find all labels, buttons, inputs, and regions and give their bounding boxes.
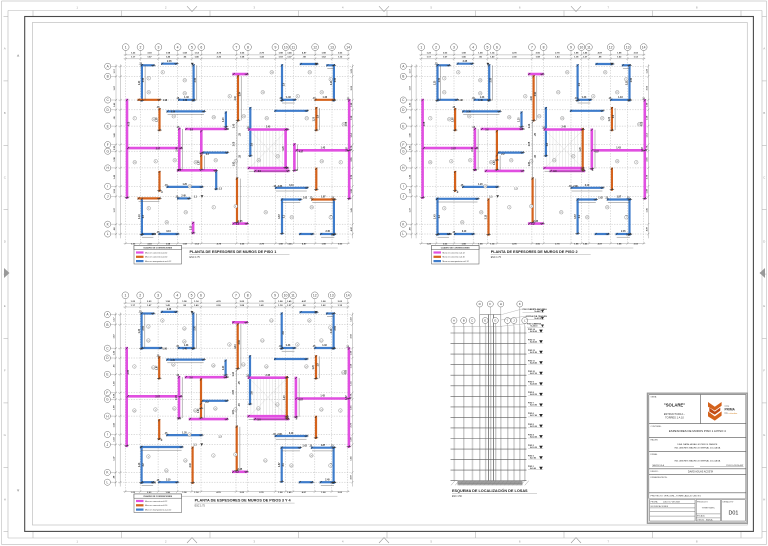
svg-text:4.05: 4.05 <box>345 369 348 374</box>
magenta v right-mid <box>590 130 593 169</box>
svg-text:MATRICULA: MATRICULA <box>653 464 665 467</box>
blue h box top right <box>312 447 334 449</box>
svg-text:9: 9 <box>148 456 149 458</box>
svg-text:2.50: 2.50 <box>195 77 197 82</box>
svg-text:3.10: 3.10 <box>531 95 533 100</box>
svg-text:2.87: 2.87 <box>155 397 160 399</box>
magenta h <box>486 170 523 173</box>
svg-text:colombia: colombia <box>729 413 739 415</box>
svg-text:8: 8 <box>247 294 249 298</box>
svg-text:3: 3 <box>235 409 236 411</box>
magenta v right-mid <box>295 378 298 417</box>
svg-text:2.45: 2.45 <box>175 395 178 400</box>
svg-text:INDICA: INDICA <box>706 519 713 522</box>
orange v mid <box>496 131 498 160</box>
blue box bottom <box>142 347 161 349</box>
svg-text:12: 12 <box>321 92 323 94</box>
svg-text:3.10: 3.10 <box>289 185 294 187</box>
svg-text:2: 2 <box>435 45 437 49</box>
svg-text:1.87: 1.87 <box>346 146 348 151</box>
svg-text:1.62: 1.62 <box>303 198 308 200</box>
fold marks <box>187 6 197 11</box>
svg-text:1.87: 1.87 <box>279 462 281 467</box>
svg-text:10: 10 <box>284 294 288 298</box>
svg-text:1.43: 1.43 <box>232 123 235 128</box>
svg-text:1: 1 <box>148 78 149 80</box>
orange v mid-left <box>158 109 160 130</box>
svg-text:5: 5 <box>330 327 331 329</box>
svg-text:Muro en concreto e=0.12: Muro en concreto e=0.12 <box>145 251 168 254</box>
svg-text:4.05: 4.05 <box>423 121 426 126</box>
svg-text:6: 6 <box>496 45 498 49</box>
svg-text:CUADRO DE CONVENCIONES: CUADRO DE CONVENCIONES <box>143 495 173 498</box>
svg-text:1.20: 1.20 <box>314 116 316 121</box>
svg-text:28: 28 <box>484 186 486 188</box>
blue h below G <box>203 152 227 154</box>
svg-text:1.20: 1.20 <box>478 184 483 186</box>
svg-text:11: 11 <box>587 45 591 49</box>
svg-text:1.87: 1.87 <box>156 365 158 370</box>
blue wall col5 <box>192 314 194 349</box>
company logo <box>708 402 738 421</box>
svg-text:28: 28 <box>188 434 190 436</box>
magenta h below stair <box>255 418 288 421</box>
magenta long left <box>126 100 129 198</box>
svg-text:1.87: 1.87 <box>199 160 201 165</box>
svg-text:3.10: 3.10 <box>190 462 192 467</box>
svg-text:1.87: 1.87 <box>346 395 348 400</box>
svg-text:23: 23 <box>184 460 186 462</box>
svg-text:PLANTA DE ESPESORES DE MUROS D: PLANTA DE ESPESORES DE MUROS DE PISOS 3 … <box>195 499 292 503</box>
svg-text:1.40: 1.40 <box>182 347 187 350</box>
plan PISO 1 stair hatch <box>250 131 286 168</box>
svg-text:1.20: 1.20 <box>182 432 187 434</box>
plan PISO 1 top dimension lines <box>124 54 350 56</box>
magenta stair bottom <box>249 167 287 170</box>
svg-text:7: 7 <box>134 118 135 120</box>
svg-text:14: 14 <box>270 320 272 322</box>
svg-text:2.45: 2.45 <box>266 126 271 129</box>
orange T stem <box>532 76 534 120</box>
svg-text:16: 16 <box>165 470 167 472</box>
svg-text:1: 1 <box>509 207 510 209</box>
svg-text:2.80: 2.80 <box>573 186 578 188</box>
magenta center foot <box>529 222 542 225</box>
svg-text:1.87: 1.87 <box>233 161 235 166</box>
esquema grid bubbles <box>451 318 457 324</box>
svg-text:1.43: 1.43 <box>434 214 437 219</box>
blue v lower box right <box>281 200 283 234</box>
svg-text:3.30: 3.30 <box>171 112 176 114</box>
svg-text:27: 27 <box>306 118 308 120</box>
plan PISO 2 row grid bubbles <box>400 63 406 69</box>
plan PISO 1 row grid bubbles <box>105 63 111 69</box>
svg-text:A: A <box>453 319 455 323</box>
svg-text:A: A <box>763 47 765 51</box>
svg-text:23: 23 <box>185 212 187 214</box>
svg-text:DETALLE N°: DETALLE N° <box>723 500 734 503</box>
ruler ticks top/bottom <box>32 11 34 17</box>
orange v mid <box>200 379 202 408</box>
svg-text:3: 3 <box>531 161 532 163</box>
plan PISOS 3 Y 4 wall end dims <box>125 311 352 484</box>
magenta long right <box>348 100 351 198</box>
svg-text:2.45: 2.45 <box>167 60 172 63</box>
svg-text:12: 12 <box>313 45 317 49</box>
svg-text:2.87: 2.87 <box>451 148 456 150</box>
blue v center-left <box>225 113 227 127</box>
svg-text:1.87: 1.87 <box>575 214 577 219</box>
svg-text:H: H <box>500 302 502 306</box>
plan PISOS 3 Y 4 grid <box>124 303 126 492</box>
orange v mid-left <box>158 357 160 378</box>
blue h bottom r2 <box>321 481 334 483</box>
blue box bottom right <box>611 99 629 101</box>
svg-text:1.87: 1.87 <box>233 409 235 414</box>
blue h lower <box>168 186 202 188</box>
svg-text:13: 13 <box>261 340 263 342</box>
blue wall top 2 <box>162 63 176 65</box>
svg-text:15: 15 <box>265 212 267 214</box>
svg-text:21: 21 <box>468 116 470 118</box>
svg-text:27: 27 <box>305 366 307 368</box>
svg-text:21: 21 <box>173 116 175 118</box>
svg-text:CUADRO DE CONVENCIONES: CUADRO DE CONVENCIONES <box>143 247 173 250</box>
svg-text:PLANTA DE ESPESORES DE MUROS D: PLANTA DE ESPESORES DE MUROS DE PISO 1 <box>190 250 277 254</box>
blue v col13 low <box>628 200 630 235</box>
svg-text:CONTIENE:: CONTIENE: <box>651 426 662 428</box>
svg-text:13: 13 <box>243 116 245 118</box>
svg-text:1.43: 1.43 <box>323 96 328 99</box>
svg-text:Muro en concreto e=0.10: Muro en concreto e=0.10 <box>145 504 168 507</box>
svg-text:1.87: 1.87 <box>494 160 496 165</box>
svg-text:4.05: 4.05 <box>641 121 644 126</box>
orange T stem <box>237 325 239 369</box>
svg-text:2.45: 2.45 <box>238 220 243 223</box>
svg-text:1.43: 1.43 <box>286 96 291 99</box>
svg-text:E: E <box>763 304 765 308</box>
plan PISO 2 grid <box>420 54 422 243</box>
svg-text:1.87: 1.87 <box>321 445 326 447</box>
magenta long left <box>125 348 128 446</box>
svg-text:1.43: 1.43 <box>618 96 623 99</box>
blue h top right <box>597 63 613 65</box>
svg-text:B: B <box>402 75 404 79</box>
svg-text:1.40: 1.40 <box>183 99 188 102</box>
blue v lower box right <box>576 200 578 234</box>
svg-text:15: 15 <box>147 340 149 342</box>
svg-text:2.45: 2.45 <box>181 195 186 198</box>
magenta stair bottom <box>545 167 583 170</box>
magenta v mid <box>178 129 181 170</box>
svg-text:5: 5 <box>191 45 193 49</box>
svg-text:5: 5 <box>330 79 331 81</box>
blue h mid <box>168 110 204 112</box>
blue h bottom 1 <box>142 233 154 235</box>
esquema grid verticals <box>453 324 455 481</box>
svg-text:14: 14 <box>346 45 350 49</box>
svg-text:1: 1 <box>124 294 126 298</box>
orange v lower right <box>315 417 317 438</box>
magenta stair v1 (p1) <box>284 130 287 168</box>
blue v extra (p1) <box>215 171 217 189</box>
svg-text:1.43: 1.43 <box>322 344 327 347</box>
svg-text:PLANTA DE ESPESORES DE MUROS D: PLANTA DE ESPESORES DE MUROS DE PISO 2 <box>491 250 578 254</box>
svg-text:26: 26 <box>429 162 431 164</box>
svg-text:1.20: 1.20 <box>182 184 187 186</box>
svg-text:1.43: 1.43 <box>138 214 141 219</box>
svg-text:OBRA:: OBRA: <box>651 395 658 398</box>
svg-text:12: 12 <box>313 294 317 298</box>
legend (cuadro de convenciones) plan 1 <box>134 246 182 265</box>
svg-text:A: A <box>4 47 6 51</box>
svg-text:8: 8 <box>235 454 236 456</box>
svg-text:4.87: 4.87 <box>594 150 599 153</box>
svg-text:5: 5 <box>626 79 627 81</box>
svg-text:N+41.30: N+41.30 <box>535 317 542 320</box>
svg-text:19: 19 <box>342 372 344 374</box>
svg-text:24: 24 <box>616 161 618 163</box>
svg-text:E: E <box>402 124 404 128</box>
svg-text:11: 11 <box>291 294 295 298</box>
svg-text:ING. ANDRES MAURICIO BERNAL ZU: ING. ANDRES MAURICIO BERNAL ZULUAGA <box>674 460 720 463</box>
svg-text:2.50: 2.50 <box>143 325 145 330</box>
svg-text:13: 13 <box>262 92 264 94</box>
svg-text:1.40: 1.40 <box>478 99 483 102</box>
svg-text:19: 19 <box>343 124 345 126</box>
blue h bottom 2 <box>455 233 473 235</box>
svg-text:12: 12 <box>609 45 613 49</box>
svg-text:Muro en mamposteria e=0.12: Muro en mamposteria e=0.12 <box>145 508 172 511</box>
magenta center foot <box>233 470 246 473</box>
svg-text:28: 28 <box>508 117 510 119</box>
blue wall top <box>142 312 154 314</box>
svg-text:1: 1 <box>213 455 214 457</box>
svg-text:1.20: 1.20 <box>435 80 437 85</box>
svg-text:L: L <box>107 480 109 484</box>
svg-text:18: 18 <box>195 162 197 164</box>
blue h box top <box>578 198 596 200</box>
plan PISO 2 top dimension lines <box>419 54 645 56</box>
svg-text:3.10: 3.10 <box>190 225 192 230</box>
svg-text:N+29.40: N+29.40 <box>530 361 537 364</box>
svg-text:8: 8 <box>531 206 532 208</box>
svg-text:1.20: 1.20 <box>580 146 582 151</box>
svg-text:2: 2 <box>340 410 341 412</box>
svg-text:14: 14 <box>271 72 273 74</box>
svg-text:F: F <box>763 369 765 373</box>
svg-text:7: 7 <box>134 366 135 368</box>
svg-text:1.62: 1.62 <box>598 198 603 200</box>
svg-text:13: 13 <box>538 116 540 118</box>
blue v col13 <box>333 65 335 100</box>
svg-text:10: 10 <box>284 45 288 49</box>
svg-text:2.45: 2.45 <box>561 126 566 129</box>
blue h lower right <box>276 187 307 189</box>
svg-text:9: 9 <box>274 294 276 298</box>
svg-text:1.98: 1.98 <box>458 100 463 102</box>
plan PISO 2 wall end dims <box>420 63 647 236</box>
svg-text:2.50: 2.50 <box>491 77 493 82</box>
svg-text:3.30: 3.30 <box>466 112 471 114</box>
svg-text:12: 12 <box>616 92 618 94</box>
magenta T head <box>234 73 247 76</box>
svg-text:9: 9 <box>444 208 445 210</box>
svg-text:1.43: 1.43 <box>616 147 621 150</box>
svg-text:21: 21 <box>308 320 310 322</box>
svg-text:ESC 1:75: ESC 1:75 <box>190 256 201 259</box>
plan PISO 1 dimension text <box>113 52 353 246</box>
blue wall left box W <box>141 65 143 100</box>
blue h bottom r2 <box>617 233 630 235</box>
svg-text:2.05: 2.05 <box>529 141 531 146</box>
blue h <box>282 347 295 349</box>
blue box bottom right <box>315 347 333 349</box>
svg-text:13: 13 <box>557 92 559 94</box>
blue h <box>282 99 295 101</box>
magenta h below stair <box>255 170 288 173</box>
magenta h mid <box>186 376 226 379</box>
svg-text:ESQUEMA DE LOCALIZACIÓN DE LOS: ESQUEMA DE LOCALIZACIÓN DE LOSAS <box>452 488 528 493</box>
svg-text:1.98: 1.98 <box>163 100 168 102</box>
blue wall bottom <box>179 347 194 349</box>
blue wall top <box>142 64 154 66</box>
svg-text:3.10: 3.10 <box>585 185 590 187</box>
blue wall bottom <box>179 99 194 101</box>
svg-text:2.45: 2.45 <box>621 230 626 233</box>
ruler band lines <box>8 10 762 12</box>
blue v col9 <box>281 314 283 349</box>
orange v lower <box>454 172 456 191</box>
svg-text:2.80: 2.80 <box>277 434 282 436</box>
svg-text:22: 22 <box>586 217 588 219</box>
blue h below G <box>203 400 227 402</box>
svg-text:3.94: 3.94 <box>238 339 241 344</box>
svg-text:1.50: 1.50 <box>152 234 157 236</box>
svg-text:N+44.6: N+44.6 <box>535 310 541 313</box>
svg-text:7: 7 <box>626 217 627 219</box>
svg-text:3.10: 3.10 <box>235 95 237 100</box>
svg-text:4.05: 4.05 <box>345 121 348 126</box>
svg-text:HACEN:: HACEN: <box>651 439 659 442</box>
magenta h row G left <box>424 147 477 150</box>
svg-text:14: 14 <box>153 119 155 121</box>
blue v center-left <box>520 113 522 127</box>
svg-text:16: 16 <box>461 222 463 224</box>
svg-text:2: 2 <box>140 45 142 49</box>
blue box top low <box>141 446 182 448</box>
magenta h below stair <box>551 170 584 173</box>
plan PISO 2 stair hatch <box>546 131 582 168</box>
svg-text:6: 6 <box>200 294 202 298</box>
svg-text:Muro en mamposteria e=0.12: Muro en mamposteria e=0.12 <box>443 260 470 263</box>
svg-text:3.10: 3.10 <box>486 214 488 219</box>
blue h bottom r1 <box>300 233 312 235</box>
magenta v mid <box>474 129 477 170</box>
orange T stem <box>237 76 239 120</box>
svg-text:F: F <box>402 143 404 147</box>
svg-text:2.05: 2.05 <box>233 389 235 394</box>
esquema floor lines <box>451 332 527 334</box>
svg-text:4.87: 4.87 <box>299 150 304 153</box>
svg-text:4: 4 <box>155 409 156 411</box>
svg-text:ESCALA: ESCALA <box>697 515 705 518</box>
margin arrow marks <box>17 54 20 56</box>
svg-text:2.80: 2.80 <box>278 186 283 188</box>
svg-text:FIRMA:: FIRMA: <box>651 453 658 456</box>
svg-text:7: 7 <box>330 465 331 467</box>
svg-text:1.50: 1.50 <box>447 234 452 236</box>
svg-text:B: B <box>107 75 109 79</box>
blue h <box>578 99 591 101</box>
title block <box>647 393 747 523</box>
magenta long right <box>348 349 351 447</box>
svg-text:L: L <box>402 232 404 236</box>
svg-text:2.87: 2.87 <box>156 148 161 150</box>
svg-text:25: 25 <box>510 160 512 162</box>
magenta stair bottom <box>249 415 287 418</box>
svg-text:24: 24 <box>320 409 322 411</box>
svg-text:6: 6 <box>297 96 298 98</box>
svg-text:1.43: 1.43 <box>528 123 531 128</box>
esquema foundation hatch <box>458 481 523 486</box>
blue wall top 2 <box>162 311 176 313</box>
magenta h row G right <box>592 149 645 152</box>
svg-text:15: 15 <box>560 212 562 214</box>
svg-text:CUADRO DE CONVENCIONES: CUADRO DE CONVENCIONES <box>441 247 471 250</box>
svg-text:11: 11 <box>174 160 176 162</box>
svg-text:15: 15 <box>264 460 266 462</box>
svg-text:6: 6 <box>200 45 202 49</box>
magenta h row G left <box>128 395 181 398</box>
svg-text:N+5.40: N+5.40 <box>530 467 536 470</box>
svg-text:10: 10 <box>258 160 260 162</box>
svg-text:PRODUCTO: PRODUCTO <box>697 501 708 503</box>
svg-text:21: 21 <box>172 364 174 366</box>
svg-text:3.10: 3.10 <box>235 344 237 349</box>
svg-text:Muro en concreto e=0.12: Muro en concreto e=0.12 <box>443 251 466 254</box>
orange center stem low <box>531 179 533 223</box>
svg-text:I: I <box>403 185 404 189</box>
svg-text:TORRES 1 A 10: TORRES 1 A 10 <box>665 416 684 420</box>
svg-text:4: 4 <box>451 161 452 163</box>
svg-text:Muro en concreto e=0.12: Muro en concreto e=0.12 <box>145 500 168 503</box>
orange box top low (p1) <box>139 197 160 199</box>
plan PISO 1 wall end dims <box>125 63 352 236</box>
orange v mid-right <box>611 108 613 130</box>
svg-text:YYRRTT6MYL: YYRRTT6MYL <box>702 508 716 510</box>
magenta h (p1) <box>178 169 215 172</box>
svg-text:4: 4 <box>155 161 156 163</box>
ruler ticks left/right <box>4 16 9 18</box>
blue v lower box right <box>281 448 283 482</box>
svg-text:13: 13 <box>242 364 244 366</box>
svg-text:2.45: 2.45 <box>325 478 330 481</box>
svg-text:14: 14 <box>346 294 350 298</box>
plan PISOS 3 Y 4 wall tags <box>133 319 346 473</box>
plan PISOS 3 Y 4 wall dimension notes <box>127 325 348 484</box>
svg-text:1.20: 1.20 <box>223 117 225 122</box>
magenta stair top <box>545 128 583 131</box>
svg-text:1.87: 1.87 <box>617 197 622 199</box>
svg-text:4: 4 <box>177 45 179 49</box>
blue wall left box W <box>141 314 143 349</box>
svg-text:8: 8 <box>458 72 459 74</box>
svg-text:1.62: 1.62 <box>302 446 307 448</box>
svg-text:17: 17 <box>277 156 279 158</box>
esquema core walls <box>488 315 490 481</box>
plan PISO 2 wall tags <box>429 71 642 225</box>
